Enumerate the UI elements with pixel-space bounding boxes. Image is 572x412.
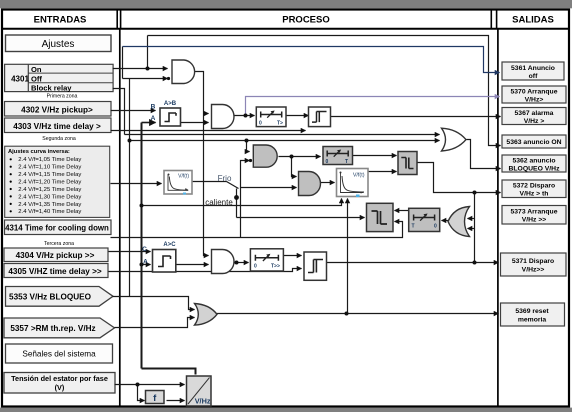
wire curva inversa to V/f1 [111,183,162,185]
svg-text:5357 >RM th.rep. V/Hz: 5357 >RM th.rep. V/Hz [10,324,95,333]
svg-text:4301: 4301 [11,74,29,83]
svg-text:On: On [31,65,42,74]
svg-text:V/Hz > th: V/Hz > th [520,191,549,198]
and gate U3 gray [253,145,277,167]
wire timer T1 to pulse P1 [287,115,309,117]
wire tension drop to f box [138,385,145,401]
svg-text:(V): (V) [55,383,65,392]
svg-text:0: 0 [434,224,437,230]
svg-text:BLOQUEO V/Hz: BLOQUEO V/Hz [509,166,561,173]
svg-text:5369 reset: 5369 reset [515,308,549,315]
wire bus2 drop to AND U3 input 1 [247,141,250,152]
or gate U8 gray [195,304,218,326]
4305 box [4,264,108,278]
svg-text:5371 Disparo: 5371 Disparo [512,258,554,265]
svg-text:A>B: A>B [164,101,177,107]
node and3 out [290,155,294,159]
wire AND U5 output junction [234,262,249,264]
svg-text:2.4 V/f=1,35 Time Delay: 2.4 V/f=1,35 Time Delay [18,202,81,208]
output 5363 [502,135,566,148]
svg-text:C: C [142,246,147,253]
svg-text:V/Hz >>: V/Hz >> [522,217,547,224]
wire navy-net vertical [122,47,124,79]
wire 4303 setting line [111,130,306,132]
svg-text:0: 0 [326,159,329,165]
svg-text:5370 Arranque: 5370 Arranque [511,89,558,96]
svg-text:V/Hz>: V/Hz> [525,97,544,104]
wire 4302 to comparator B [111,110,156,112]
pulse P2 gray [398,152,417,175]
svg-text:Frio: Frio [218,174,232,183]
svg-text:Segunda zona: Segunda zona [42,136,76,142]
svg-text:Ajustes curva inversa:: Ajustes curva inversa: [8,149,70,155]
node on-line [146,67,150,71]
header cell proceso right [490,10,492,29]
wire AND U3 output to timer T2 [279,156,321,158]
top gray strip [0,0,572,8]
function V/f2 [337,169,369,198]
wire branch frio vertical to AND U4 input 2 [241,187,297,189]
pulse P1 [309,107,331,127]
wire pulse P2 output to 5372 [417,163,501,193]
wire timer T2 to pulse P2 [353,155,397,157]
header bottom border [2,28,569,30]
wire top line to 5363 anuncio ON [148,36,501,146]
svg-text:5353 V/Hz BLOQUEO: 5353 V/Hz BLOQUEO [9,293,92,302]
svg-text:4304 V/Hz pickup >>: 4304 V/Hz pickup >> [16,251,95,260]
node and1 in2 [167,77,170,80]
svg-text:T: T [412,224,415,230]
and gate U4 gray [299,172,321,196]
node 5372 [473,191,477,195]
wire riser bottom L [142,369,196,375]
svg-text:V/f(t): V/f(t) [353,173,365,179]
svg-text:Block relay: Block relay [31,84,72,93]
svg-text:5367 alarma: 5367 alarma [515,110,554,117]
svg-text:0: 0 [259,121,262,127]
svg-text:caliente: caliente [205,198,233,207]
wire tension output [115,384,185,386]
svg-text:B: B [151,104,156,111]
pulse P3 [304,252,327,280]
wire 5357 elbow into OR U8 input 2 [115,318,195,328]
output 5373 [502,206,566,225]
wire stub OR U9 input 2 [468,228,475,230]
function f box [146,391,165,405]
5357 binary input pentagon [4,318,115,338]
svg-text:2.4 V/f=1,40 Time Delay: 2.4 V/f=1,40 Time Delay [18,209,81,215]
wire frio vertical [241,161,250,238]
wire OR U8 output to 5369 [217,313,499,315]
node riser A [140,204,144,208]
purple wire arranque to 5370 [246,97,500,116]
wire AND U2 output to timer T1 [235,115,255,117]
wire 4305 setting line [109,269,302,272]
node 5371 [473,261,477,265]
output 5371 [501,253,567,276]
node and3 in2 [249,159,252,162]
svg-text:Primera zona: Primera zona [47,94,78,100]
svg-text:memoria: memoria [518,317,547,324]
wire 5353 riser [129,79,131,297]
and gate U2 [212,105,235,129]
wire V/Hz riser (thick) [141,123,143,369]
wire branch A to V/f2 bottom [142,199,342,206]
node caliente [234,195,239,200]
4314 box [5,220,112,235]
output 5361 [502,62,564,80]
wire Block relay drop [113,89,125,135]
wire branch to AND U2 input 1 [204,113,209,115]
svg-text:Tensión del estator por fase: Tensión del estator por fase [11,374,108,383]
svg-text:V/f(t): V/f(t) [178,174,189,180]
4304 box [4,248,108,262]
svg-text:5361 Anuncio: 5361 Anuncio [511,65,555,72]
timer T4 gray [409,208,440,231]
pulse P4 gray [367,203,394,231]
or gate U9 gray mirrored [448,207,470,237]
svg-text:5363 anuncio ON: 5363 anuncio ON [506,139,561,146]
svg-text:Off: Off [31,75,42,84]
svg-text:4305 V/HZ time delay >>: 4305 V/HZ time delay >> [8,267,102,276]
svg-text:5362 anuncio: 5362 anuncio [512,158,555,165]
wire On to AND U1 [113,68,168,70]
svg-text:V/Hz>>: V/Hz>> [522,267,545,274]
wire caliente elbow to riser [237,217,365,219]
and gate U5 [212,250,235,274]
wire comparator A>C output to AND U5 [176,264,209,266]
wire AND U1 output drop [195,72,209,256]
node and5 out [235,261,239,265]
wire comparator A>B out to AND U2 input 2 [181,122,209,124]
switch blade frio/caliente [227,182,239,189]
svg-text:off: off [529,73,538,80]
4302 box [5,102,112,117]
column divider proceso/salidas [497,29,499,407]
header cell entradas [116,10,118,29]
svg-text:ENTRADAS: ENTRADAS [34,15,87,26]
divider V/Hz box [187,376,212,406]
wire OR U7 output to 5362 [467,140,501,169]
header cell salidas [496,10,498,29]
svg-text:2.4 V/f=1,25 Time Delay: 2.4 V/f=1,25 Time Delay [18,187,81,193]
svg-text:SALIDAS: SALIDAS [512,15,554,26]
wire V/f1 output Frio segment [193,181,227,183]
wire node On riser to 5363 line [147,36,149,69]
5353 binary input pentagon [6,287,114,307]
svg-text:4314 Time for cooling down: 4314 Time for cooling down [5,224,109,233]
svg-text:Ajustes: Ajustes [42,39,75,50]
svg-text:2.4 V/f=1,15 Time Delay: 2.4 V/f=1,15 Time Delay [18,172,81,178]
wire OR U9 output to timer T4 [442,220,449,222]
svg-text:Tercera zona: Tercera zona [44,241,74,247]
svg-text:V/Hz >: V/Hz > [524,118,545,125]
svg-text:A>C: A>C [163,242,176,248]
svg-text:4302 V/Hz pickup>: 4302 V/Hz pickup> [21,105,93,114]
function V/f1 [164,171,192,195]
wire timer T4 to pulse P4 [395,210,409,212]
comparator A>C U5a [142,242,176,272]
wire stub OR U9 input 1 [468,218,475,220]
output 5362 [502,155,566,173]
wire riser from OR U8 line to V/f2 bottom [347,199,349,314]
wire V/f2 output to pulse P2 input 2 [369,171,397,173]
wire timer T3 to pulse P3 [284,255,302,257]
output 5369 [501,303,565,326]
svg-text:2.4 V/f=1,05 Time Delay: 2.4 V/f=1,05 Time Delay [18,157,81,163]
svg-text:5372 Disparo: 5372 Disparo [513,183,555,190]
output 5370 [502,86,566,104]
header cell proceso [120,10,122,29]
4301 function group box [5,64,114,92]
timer T2 gray [323,147,353,165]
svg-text:T>: T> [277,121,283,127]
node riser A>C [140,263,144,267]
wire 4314 long line [111,222,403,238]
or gate U7 [442,128,467,151]
bottom gray strip [0,408,572,412]
svg-text:T>>: T>> [271,264,280,270]
wire 5353 to OR U8 input 1 [113,297,195,310]
svg-text:4303 V/Hz time delay >: 4303 V/Hz time delay > [13,122,101,131]
node bus2 start [128,139,132,143]
node 5369 riser [345,312,349,316]
wire bus block to OR U7 input 1 [125,134,440,136]
svg-text:Señales del sistema: Señales del sistema [22,350,96,359]
Tension del estator box [4,373,115,394]
wire vertical 5372 to 5371 junction [474,193,476,263]
svg-text:A: A [151,115,156,122]
navy wire off to 5361 [123,47,500,73]
node bus2 and3 [245,139,249,143]
svg-text:PROCESO: PROCESO [282,15,330,26]
wire AND U4 output to V/f2 [321,182,335,184]
svg-text:2.4 V/f=1,10 Time Delay: 2.4 V/f=1,10 Time Delay [18,165,81,171]
wire into AND U1 input 2 [123,78,168,80]
wire bus 5353 to OR U7 input 2 [130,140,440,142]
wire 4304 to comparator C [109,251,151,253]
timer T3 [250,249,283,271]
Ajustes curva inversa settings box [5,146,110,217]
svg-text:5373 Arranque: 5373 Arranque [511,209,558,216]
node tension split [136,383,140,387]
svg-text:T: T [345,159,348,165]
wire branch to comparator A>C input A [142,264,151,266]
svg-text:2.4 V/f=1,20 Time Delay: 2.4 V/f=1,20 Time Delay [18,180,81,186]
svg-text:A: A [143,259,148,266]
Señales del sistema box [6,344,113,363]
wire caliente vertical [236,189,238,218]
node and2-out purple [244,114,248,118]
svg-text:V/Hz: V/Hz [195,397,211,406]
output 5372 [502,180,566,198]
wire AND U3 output drop to AND U4 input 1 [292,157,297,177]
wire pulse P3 to output 5371 [327,262,499,264]
wire f box to V/Hz divider [167,400,185,402]
4303 box [5,118,112,133]
svg-text:0: 0 [254,264,257,270]
comparator A>B U2a [151,101,181,126]
output 5367 [502,108,566,126]
Ajustes box [6,35,112,52]
column divider entradas/proceso [119,29,121,407]
wire riser top into comparator A [142,122,156,124]
wire pulse P1 to output 5367 [331,116,501,118]
timer T1 [256,107,286,127]
and gate U1 [172,60,195,84]
svg-text:2.4 V/f=1,30 Time Delay: 2.4 V/f=1,30 Time Delay [18,194,81,200]
